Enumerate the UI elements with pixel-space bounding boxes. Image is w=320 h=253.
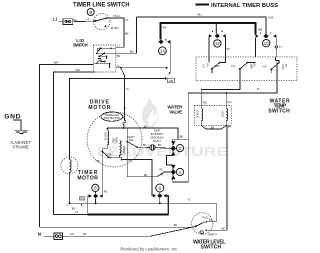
label WATER VALVE xyxy=(167,104,183,114)
svg-text:PULL: PULL xyxy=(114,14,121,18)
circled 12 xyxy=(214,40,221,47)
N wire to water level switch xyxy=(63,226,196,236)
timer contact 10 (SPDT) xyxy=(256,32,277,38)
wire diagonal down to drive motor YL xyxy=(121,68,125,108)
protector lead zigzag xyxy=(123,108,126,128)
junction at motor inlet xyxy=(124,108,126,110)
tick on bus xyxy=(80,204,82,205)
FULL contact wire to bus corner xyxy=(206,221,216,223)
label CABINET FRAME xyxy=(11,140,32,150)
svg-text:14: 14 xyxy=(160,49,165,54)
svg-text:LEADVENTURE: LEADVENTURE xyxy=(97,145,228,159)
ground wire xyxy=(13,120,21,130)
svg-text:PU: PU xyxy=(205,64,208,68)
circled 10 xyxy=(263,40,270,47)
drop from buss to contact 12 xyxy=(215,23,217,34)
timer contact 8 (diamond + side triangles) xyxy=(89,192,103,199)
svg-text:FL: FL xyxy=(257,87,261,91)
svg-text:6: 6 xyxy=(159,186,162,191)
svg-text:ONLY: ONLY xyxy=(153,139,162,143)
legend thick line sample xyxy=(196,3,210,5)
svg-text:GN: GN xyxy=(70,233,74,236)
svg-text:BK: BK xyxy=(144,174,148,177)
tick at end xyxy=(165,77,166,79)
label WATER TEMP SWITCH xyxy=(268,99,290,115)
svg-text:BU: BU xyxy=(130,49,134,53)
junction at valve BN xyxy=(225,125,227,127)
export contacts box (2 and 4) xyxy=(167,139,189,182)
wire from contact 14 down to GB junction xyxy=(169,42,171,73)
timer line switch blade and contacts xyxy=(94,17,107,27)
contact 10 right wire with terminal circle TT xyxy=(275,38,277,57)
svg-text:MOTOR: MOTOR xyxy=(88,105,110,111)
SLOW winding xyxy=(107,130,108,147)
thin timer bus (top) xyxy=(137,17,267,34)
svg-text:YL: YL xyxy=(187,197,191,201)
svg-text:TIMER LINE SWITCH: TIMER LINE SWITCH xyxy=(73,1,130,8)
wire lower cent sw down to contact 8 xyxy=(101,149,103,196)
circled 4 xyxy=(176,168,183,175)
valve BN return wire down to water level switch xyxy=(226,126,228,230)
svg-text:COLD: COLD xyxy=(196,110,200,118)
wire lid switch bottom output to GB junction xyxy=(116,67,167,69)
svg-text:LW: LW xyxy=(227,100,231,104)
connector (N inline plug) xyxy=(54,233,63,240)
label DRIVE MOTOR xyxy=(88,100,110,111)
svg-text:TT: TT xyxy=(279,45,283,49)
svg-text:GND: GND xyxy=(4,113,20,120)
svg-text:GB: GB xyxy=(169,79,173,83)
overload protector oval xyxy=(101,112,123,121)
lower CENT SW label xyxy=(105,152,113,159)
wire cent-sw pivot down to contact 4 xyxy=(127,142,170,177)
svg-text:Rendered by LeadVenture, Inc.: Rendered by LeadVenture, Inc. xyxy=(120,246,178,251)
svg-text:10: 10 xyxy=(264,41,269,46)
svg-text:WDG: WDG xyxy=(115,138,118,144)
label LID SWITCH xyxy=(73,38,88,48)
svg-text:N: N xyxy=(38,232,41,237)
tick at end xyxy=(166,67,167,69)
HOT solenoid coil xyxy=(226,109,228,121)
valve common bottom wire xyxy=(201,121,226,129)
internal timer buss (bottom thick) xyxy=(88,214,169,216)
svg-text:WW: WW xyxy=(215,65,220,68)
circled 6 xyxy=(156,184,164,192)
svg-text:VALVE: VALVE xyxy=(169,109,182,114)
junction dot timer motor xyxy=(69,202,71,204)
thin feed from left return into buss xyxy=(54,214,88,216)
svg-text:SWITCH: SWITCH xyxy=(268,109,290,115)
svg-text:SLOW: SLOW xyxy=(103,132,107,141)
contact 8 common down to bus xyxy=(95,198,97,203)
svg-text:BB: BB xyxy=(258,27,262,31)
timer contact 14 (diamond + right triangle) xyxy=(158,39,170,44)
contact 6 common down to bus xyxy=(159,198,161,203)
svg-text:BK: BK xyxy=(143,144,147,147)
label OVERLOAD PROTECTOR xyxy=(104,113,120,120)
contact 6 right wire down to thick buss xyxy=(167,196,169,215)
temp sw cell 3 labels xyxy=(263,64,288,70)
wire lid switch BU up to bus xyxy=(116,17,137,53)
temp sw cell 2 labels xyxy=(231,64,256,70)
timer contact 2 (triangles + diamond) xyxy=(171,141,176,155)
upper cent sw pivot and blade xyxy=(126,128,138,148)
temp sw cell 1 xyxy=(209,57,225,73)
temp sw cell 1 labels xyxy=(202,64,220,69)
tick at wire end xyxy=(169,72,171,75)
svg-text:HOT: HOT xyxy=(221,111,225,117)
svg-text:RD: RD xyxy=(104,190,108,193)
capacitor (export models) xyxy=(150,145,155,150)
svg-text:START: START xyxy=(122,146,126,155)
svg-text:SW: SW xyxy=(129,138,134,142)
svg-text:BK: BK xyxy=(222,227,226,230)
svg-text:HOT: HOT xyxy=(281,65,284,71)
motor internal bus wire to export box (BB) xyxy=(107,128,178,139)
svg-text:SWITCH: SWITCH xyxy=(73,43,88,48)
circled terminal 0 xyxy=(87,9,94,16)
boxed label RD xyxy=(79,197,84,201)
svg-text:C-C: C-C xyxy=(202,64,205,69)
bottom return wire (from lid/left) xyxy=(40,225,196,228)
svg-text:OR: OR xyxy=(96,159,100,163)
junction on lid output xyxy=(120,67,122,69)
main bottom bus wire xyxy=(70,203,217,222)
lid switch internal junction dots xyxy=(96,47,112,64)
wire junction to contact 6 left xyxy=(122,160,153,196)
connector (L1 inline plug) xyxy=(63,19,73,25)
circled 2 xyxy=(176,145,183,152)
svg-text:BR: BR xyxy=(158,144,162,147)
contact 12 side wires down to temp switch xyxy=(208,37,210,57)
start winding bottom link to junction xyxy=(109,157,122,159)
temp sw cell 3 xyxy=(270,57,279,73)
svg-text:C: C xyxy=(201,232,203,235)
internal timer buss (thick) xyxy=(160,23,255,40)
svg-text:RA: RA xyxy=(163,25,167,29)
boxed label GB xyxy=(167,78,174,83)
svg-text:C-C: C-C xyxy=(231,65,236,68)
timer motor coil xyxy=(70,160,72,204)
junction HOT branch xyxy=(225,92,227,94)
EMPTY contact wire to valve return xyxy=(206,229,227,231)
drive motor dashed circle xyxy=(87,112,142,167)
temp switch COLD output xyxy=(201,69,240,109)
svg-text:TW: TW xyxy=(82,233,87,236)
timer contact 4 (triangles + diamond) xyxy=(171,165,176,179)
timer contact 12 (SPDT) xyxy=(209,31,226,38)
contact 8 left wire down to thick buss xyxy=(87,196,90,215)
timer contact 6 (diamond + side triangles) xyxy=(153,192,167,198)
junction dot xyxy=(95,202,97,204)
watermark flame logo xyxy=(142,98,158,128)
label WATER LEVEL SWITCH xyxy=(193,240,226,251)
svg-text:SWITCH: SWITCH xyxy=(201,245,222,251)
svg-text:PROTECTOR: PROTECTOR xyxy=(104,116,120,120)
svg-text:BK: BK xyxy=(72,207,76,210)
svg-text:BB: BB xyxy=(180,136,184,139)
svg-text:PUSH: PUSH xyxy=(111,26,119,30)
COLD solenoid coil xyxy=(201,109,203,121)
upper CENT SW label xyxy=(127,135,135,142)
svg-text:RD: RD xyxy=(80,198,84,201)
svg-text:H-C: H-C xyxy=(263,65,268,68)
N wire to connector xyxy=(43,235,54,237)
water valve dashed box xyxy=(194,106,231,126)
svg-text:BK: BK xyxy=(144,126,148,129)
timer motor dashed circle xyxy=(61,157,78,174)
temp switch contact verticals from 10 xyxy=(255,38,257,57)
ground (cabinet frame) symbol xyxy=(14,130,28,133)
lid switch internal wires xyxy=(93,48,116,68)
svg-text:GY: GY xyxy=(75,211,79,214)
water temp switch dashed box xyxy=(196,57,297,81)
svg-text:PU: PU xyxy=(284,64,287,68)
svg-text:RD: RD xyxy=(203,101,207,105)
wire cent sw to capacitor xyxy=(137,146,149,148)
svg-text:MOTOR: MOTOR xyxy=(77,176,98,182)
junction dot xyxy=(159,202,161,204)
temp sw cell 2 xyxy=(239,62,256,70)
svg-text:FRAME: FRAME xyxy=(13,145,29,150)
wire capacitor to contact 2 xyxy=(155,147,170,150)
label TIMER MOTOR xyxy=(77,170,98,182)
svg-text:RED: RED xyxy=(111,138,114,143)
circled C xyxy=(200,231,203,235)
svg-text:RD: RD xyxy=(159,169,163,172)
wire timer-motor feed from contact 14 junction xyxy=(70,78,167,159)
left return wire 1 (WH) xyxy=(40,65,94,228)
wire to HOT coil xyxy=(225,93,227,109)
water level switch pivot and blade xyxy=(195,221,207,231)
svg-text:BN: BN xyxy=(211,126,215,129)
svg-text:EMPTY: EMPTY xyxy=(208,233,217,237)
circled 14 xyxy=(159,47,167,55)
slow winding bottom link xyxy=(102,148,107,149)
circled 8 xyxy=(92,184,99,191)
svg-text:BM: BM xyxy=(117,55,121,58)
svg-text:YL: YL xyxy=(126,87,130,91)
lower cent sw pivot and blade xyxy=(101,150,109,158)
svg-text:PU: PU xyxy=(227,48,231,51)
svg-text:OW: OW xyxy=(268,15,273,19)
svg-text:PU: PU xyxy=(253,64,256,68)
svg-text:L1: L1 xyxy=(53,17,59,22)
svg-text:BU: BU xyxy=(198,13,202,17)
svg-text:RED: RED xyxy=(249,64,252,69)
lid switch dashed box xyxy=(93,45,116,72)
label CAP EXPORT MODELS ONLY xyxy=(151,129,164,144)
junction dot xyxy=(123,127,125,129)
svg-text:BK: BK xyxy=(125,32,129,36)
wire from L1 to connector xyxy=(59,21,63,23)
water level switch dashed circle xyxy=(192,213,213,234)
temp switch HOT output xyxy=(188,63,277,140)
svg-text:12: 12 xyxy=(215,41,220,46)
timer line switch dashed circle xyxy=(94,13,110,29)
wire connector to switch pivot xyxy=(73,20,95,23)
label RED WDG xyxy=(111,138,117,144)
START winding xyxy=(120,141,121,157)
junction dot xyxy=(121,159,123,161)
svg-text:WH: WH xyxy=(54,61,59,65)
svg-text:BN: BN xyxy=(228,126,232,129)
svg-text:WH: WH xyxy=(75,68,80,72)
svg-text:LA: LA xyxy=(125,18,129,22)
svg-text:INTERNAL TIMER BUSS: INTERNAL TIMER BUSS xyxy=(211,3,278,9)
wire from PULL contact right then down xyxy=(106,18,124,47)
svg-text:BR: BR xyxy=(174,224,178,227)
left return wire 2 (WH) xyxy=(54,72,96,215)
